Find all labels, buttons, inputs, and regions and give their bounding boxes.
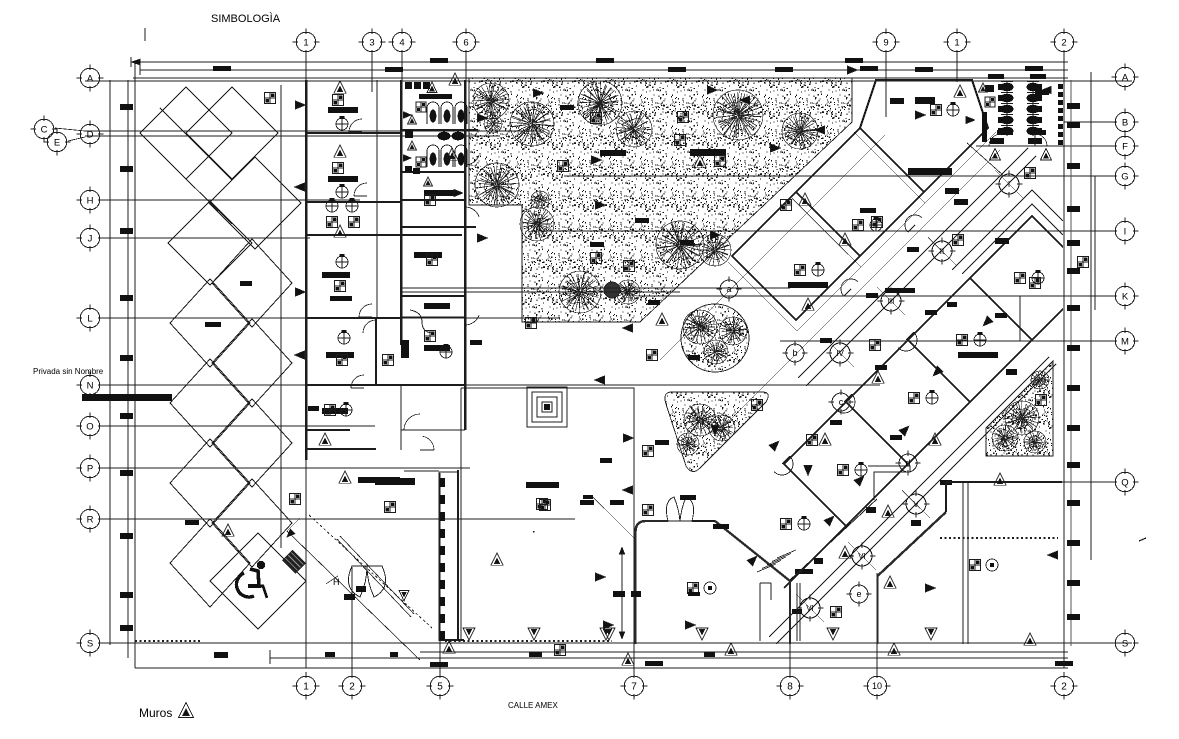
wing corridor bubble IV [830, 343, 850, 363]
grid line R [100, 518, 575, 520]
grid bubble B right [1115, 112, 1135, 132]
grid line F right [976, 145, 1114, 147]
butterfly bars [344, 594, 355, 600]
svg-text:E: E [54, 137, 60, 148]
svg-text:2: 2 [1061, 682, 1067, 693]
bottom room symbols right [970, 560, 981, 571]
svg-text:3: 3 [369, 37, 374, 48]
dim ticks bottom [269, 650, 271, 664]
dark hatch box [282, 550, 306, 574]
grid bubble K right [1115, 286, 1135, 306]
bottom right notch [868, 466, 910, 500]
svg-text:O: O [86, 421, 93, 432]
zigzag covered walkway [140, 85, 301, 607]
svg-text:9: 9 [883, 37, 888, 48]
room door arcs [349, 119, 362, 132]
svg-text:M: M [1121, 336, 1129, 347]
wing corridor bubble V [906, 494, 926, 514]
left boundary outer [109, 80, 111, 645]
trees circle garden [683, 310, 717, 344]
svg-text:R: R [87, 514, 94, 525]
wing door arcs [905, 215, 922, 232]
svg-text:G: G [1121, 171, 1128, 182]
grid bubble 2 bottom [342, 676, 362, 696]
grid line O [100, 425, 375, 427]
grid bubble I right [1115, 221, 1135, 241]
grid line B right [1064, 121, 1114, 123]
dim bars right [1067, 103, 1080, 109]
svg-text:H: H [87, 195, 94, 206]
dimension line bottom [270, 657, 1068, 659]
svg-text:1: 1 [303, 37, 308, 48]
sanitary fixtures block [427, 102, 439, 124]
grid bubble F right [1115, 136, 1135, 156]
S curve door [410, 310, 432, 333]
grid bubble 5 bottom [430, 676, 450, 696]
svg-text:c: c [839, 397, 844, 407]
svg-text:J: J [88, 233, 93, 244]
svg-text:S: S [1122, 638, 1128, 649]
grid bubble S right [1115, 633, 1135, 653]
wing corridor bubble VI [852, 546, 872, 566]
top left corner ticks [130, 57, 132, 67]
tick mark top-left [144, 28, 146, 41]
svg-text:Privada sin Nombre: Privada sin Nombre [33, 367, 104, 376]
symbol muros triangle [179, 702, 194, 717]
grid bubble C [34, 119, 54, 139]
big room interior [526, 482, 559, 488]
grid line 10 bottom [876, 573, 878, 675]
wing grid bubble b [786, 344, 804, 362]
svg-text:2: 2 [1061, 37, 1066, 48]
bracket I K right [1094, 176, 1096, 310]
dimension line top inner [140, 69, 1068, 71]
warning triangles scattered [334, 81, 346, 93]
grid line J [100, 237, 310, 239]
svg-text:CALLE AMEX: CALLE AMEX [508, 701, 558, 710]
grid line I right [535, 230, 1114, 232]
grid bubble O left [80, 416, 100, 436]
bottom area walls [306, 388, 1062, 644]
svg-text:K: K [1122, 291, 1129, 302]
ramp diagonal [287, 531, 420, 660]
left boundary inner [127, 80, 129, 658]
sanitary marks [427, 82, 437, 92]
room fixtures col1 [333, 95, 344, 106]
butterfly door bottom left [348, 566, 367, 597]
svg-text:Q: Q [1121, 477, 1128, 488]
grid line 2 top [1063, 53, 1065, 668]
grid bubble 7 bottom [624, 676, 644, 696]
grid bubble L left [80, 308, 100, 328]
trees right garden [1005, 401, 1039, 435]
grid line L [100, 317, 560, 319]
svg-text:C: C [41, 124, 48, 135]
small dark tree [604, 282, 620, 298]
svg-text:8: 8 [787, 682, 793, 693]
grid line 1 top [305, 53, 307, 668]
grid bubble J left [80, 228, 100, 248]
garden dim lines [402, 287, 790, 289]
grid bubble D left [80, 124, 100, 144]
svg-text:4: 4 [399, 37, 404, 48]
toilet block marks [990, 149, 1001, 160]
grid line G right [564, 175, 1114, 177]
grid line 6 top [465, 53, 467, 92]
wing grid bubble d [899, 454, 917, 472]
wing grid diagonal b [725, 150, 1000, 425]
grid line 5 bottom [439, 473, 441, 675]
svg-text:D: D [87, 129, 94, 140]
grid line P [100, 467, 470, 469]
wing corridor bubble I [999, 174, 1019, 194]
bottom big room bars [358, 477, 400, 483]
top right toilet fixtures [1001, 83, 1013, 91]
grid line 2 bottom [1063, 672, 1065, 675]
trees triangle garden [684, 404, 716, 436]
grid line 8 bottom [789, 580, 791, 675]
svg-text:SIMBOLOGÌA: SIMBOLOGÌA [211, 12, 281, 25]
grid line 1 top [956, 53, 958, 82]
wing black bars [945, 188, 959, 194]
svg-text:N: N [87, 380, 94, 391]
grid line 3 top [371, 53, 373, 92]
grid line 2 bottom [351, 567, 353, 675]
svg-text:I: I [1124, 226, 1127, 237]
grid line H [100, 199, 360, 201]
svg-text:10: 10 [872, 681, 882, 691]
leader lines C E [55, 128, 85, 131]
grid bubble E [47, 132, 67, 152]
svg-text:P: P [87, 463, 93, 474]
garden right wing [986, 361, 1053, 456]
grid bubble 1 bottom [296, 676, 316, 696]
wing corridor bubble II [932, 241, 952, 261]
butterfly door corridor [666, 497, 680, 521]
grid bubble 3 top [362, 32, 382, 52]
grid line A [85, 80, 1132, 82]
elevator hatch [440, 478, 445, 487]
door arrows scattered [296, 101, 306, 109]
grid bubble N left [80, 375, 100, 395]
grid line 1 bottom [305, 672, 307, 675]
garden right wsym [1036, 395, 1047, 406]
wing grid diagonal a [660, 135, 885, 360]
grid bubble M right [1115, 331, 1135, 351]
zigzag bars [205, 322, 221, 327]
dim bars top [213, 66, 231, 71]
wing corridor bubble III [881, 291, 901, 311]
svg-text:6: 6 [463, 37, 468, 48]
grid line N [100, 384, 880, 386]
svg-text:A: A [87, 73, 94, 84]
svg-text:A: A [1122, 72, 1129, 83]
svg-text:B: B [1122, 117, 1128, 128]
room fixtures col2 [425, 195, 436, 206]
bracket K M [1019, 296, 1021, 341]
wing grid bubble a [720, 280, 738, 298]
wing corridor bubble VI [800, 598, 820, 618]
grid bubble R left [80, 509, 100, 529]
arc room N [363, 320, 376, 333]
garden stipple main [469, 78, 852, 322]
bottom window syms [290, 494, 301, 505]
grid line 7 bottom [633, 520, 635, 675]
grid line G leader [967, 143, 1004, 176]
grid bubble 1 top [296, 32, 316, 52]
grid line S [100, 642, 1132, 644]
dimension bars scattered [375, 478, 415, 485]
bottom boundary [135, 667, 1068, 669]
grid line 9 top [885, 53, 887, 117]
svg-text:1: 1 [954, 37, 959, 48]
garden wsyms [558, 161, 569, 172]
grid line M right [780, 340, 1114, 342]
svg-text:L: L [87, 313, 92, 324]
grid bubble G right [1115, 166, 1135, 186]
grid line Q right [946, 481, 1114, 483]
wing room labels [931, 105, 942, 116]
toilet block door arcs [989, 134, 1001, 146]
concentric squares [527, 387, 567, 427]
grid bubble 6 top [456, 32, 476, 52]
dim bars bottom [430, 662, 448, 667]
svg-text:S: S [87, 638, 93, 649]
dim bars left [120, 104, 133, 110]
grid bubble 8 bottom [780, 676, 800, 696]
grid bubble A right [1115, 67, 1135, 87]
svg-text:F: F [1122, 141, 1128, 152]
svg-text:Muros: Muros [139, 706, 172, 720]
stairs bottom [757, 564, 776, 572]
grid bubble H left [80, 190, 100, 210]
middle room block walls [306, 80, 478, 460]
toilet top bars [988, 74, 1004, 79]
grid line D [85, 130, 540, 132]
double vertical right of 10 [962, 482, 964, 644]
grid line K right [640, 295, 1114, 297]
grid bubble A left [80, 68, 100, 88]
window symbols scattered [265, 93, 276, 104]
svg-text:1: 1 [303, 682, 309, 693]
grid bubble 2 bottom [1054, 676, 1074, 696]
grid bubble P left [80, 458, 100, 478]
wing grid bubble c [832, 393, 850, 411]
grid bubble 4 top [392, 32, 412, 52]
svg-text:2: 2 [349, 682, 355, 693]
grid bubble 10 bottom [867, 676, 887, 696]
garden circle [681, 304, 749, 372]
svg-text:e: e [856, 589, 861, 599]
dimension line top outer [131, 61, 1068, 63]
wing grid bubble e [850, 585, 868, 603]
grid bubble S left [80, 633, 100, 653]
svg-text:7: 7 [631, 682, 637, 693]
room black bars [328, 107, 358, 113]
grid bubble Q right [1115, 472, 1135, 492]
garden triangle lower [665, 392, 768, 472]
bottom dotted walls [445, 640, 612, 642]
grid bubble 1 top [947, 32, 967, 52]
wheelchair symbol [236, 569, 267, 598]
garden black bar [690, 149, 726, 156]
bottom room symbols [688, 583, 699, 594]
grid bubble 9 top [876, 32, 896, 52]
grid line 4 top [401, 53, 403, 300]
grid bubble 2 top [1054, 32, 1074, 52]
stray dash bottom right [1139, 538, 1146, 541]
right boundary [1063, 70, 1065, 646]
trees garden main [473, 83, 509, 119]
svg-text:5: 5 [437, 682, 443, 693]
diagonal wing rooms [728, 80, 1094, 644]
